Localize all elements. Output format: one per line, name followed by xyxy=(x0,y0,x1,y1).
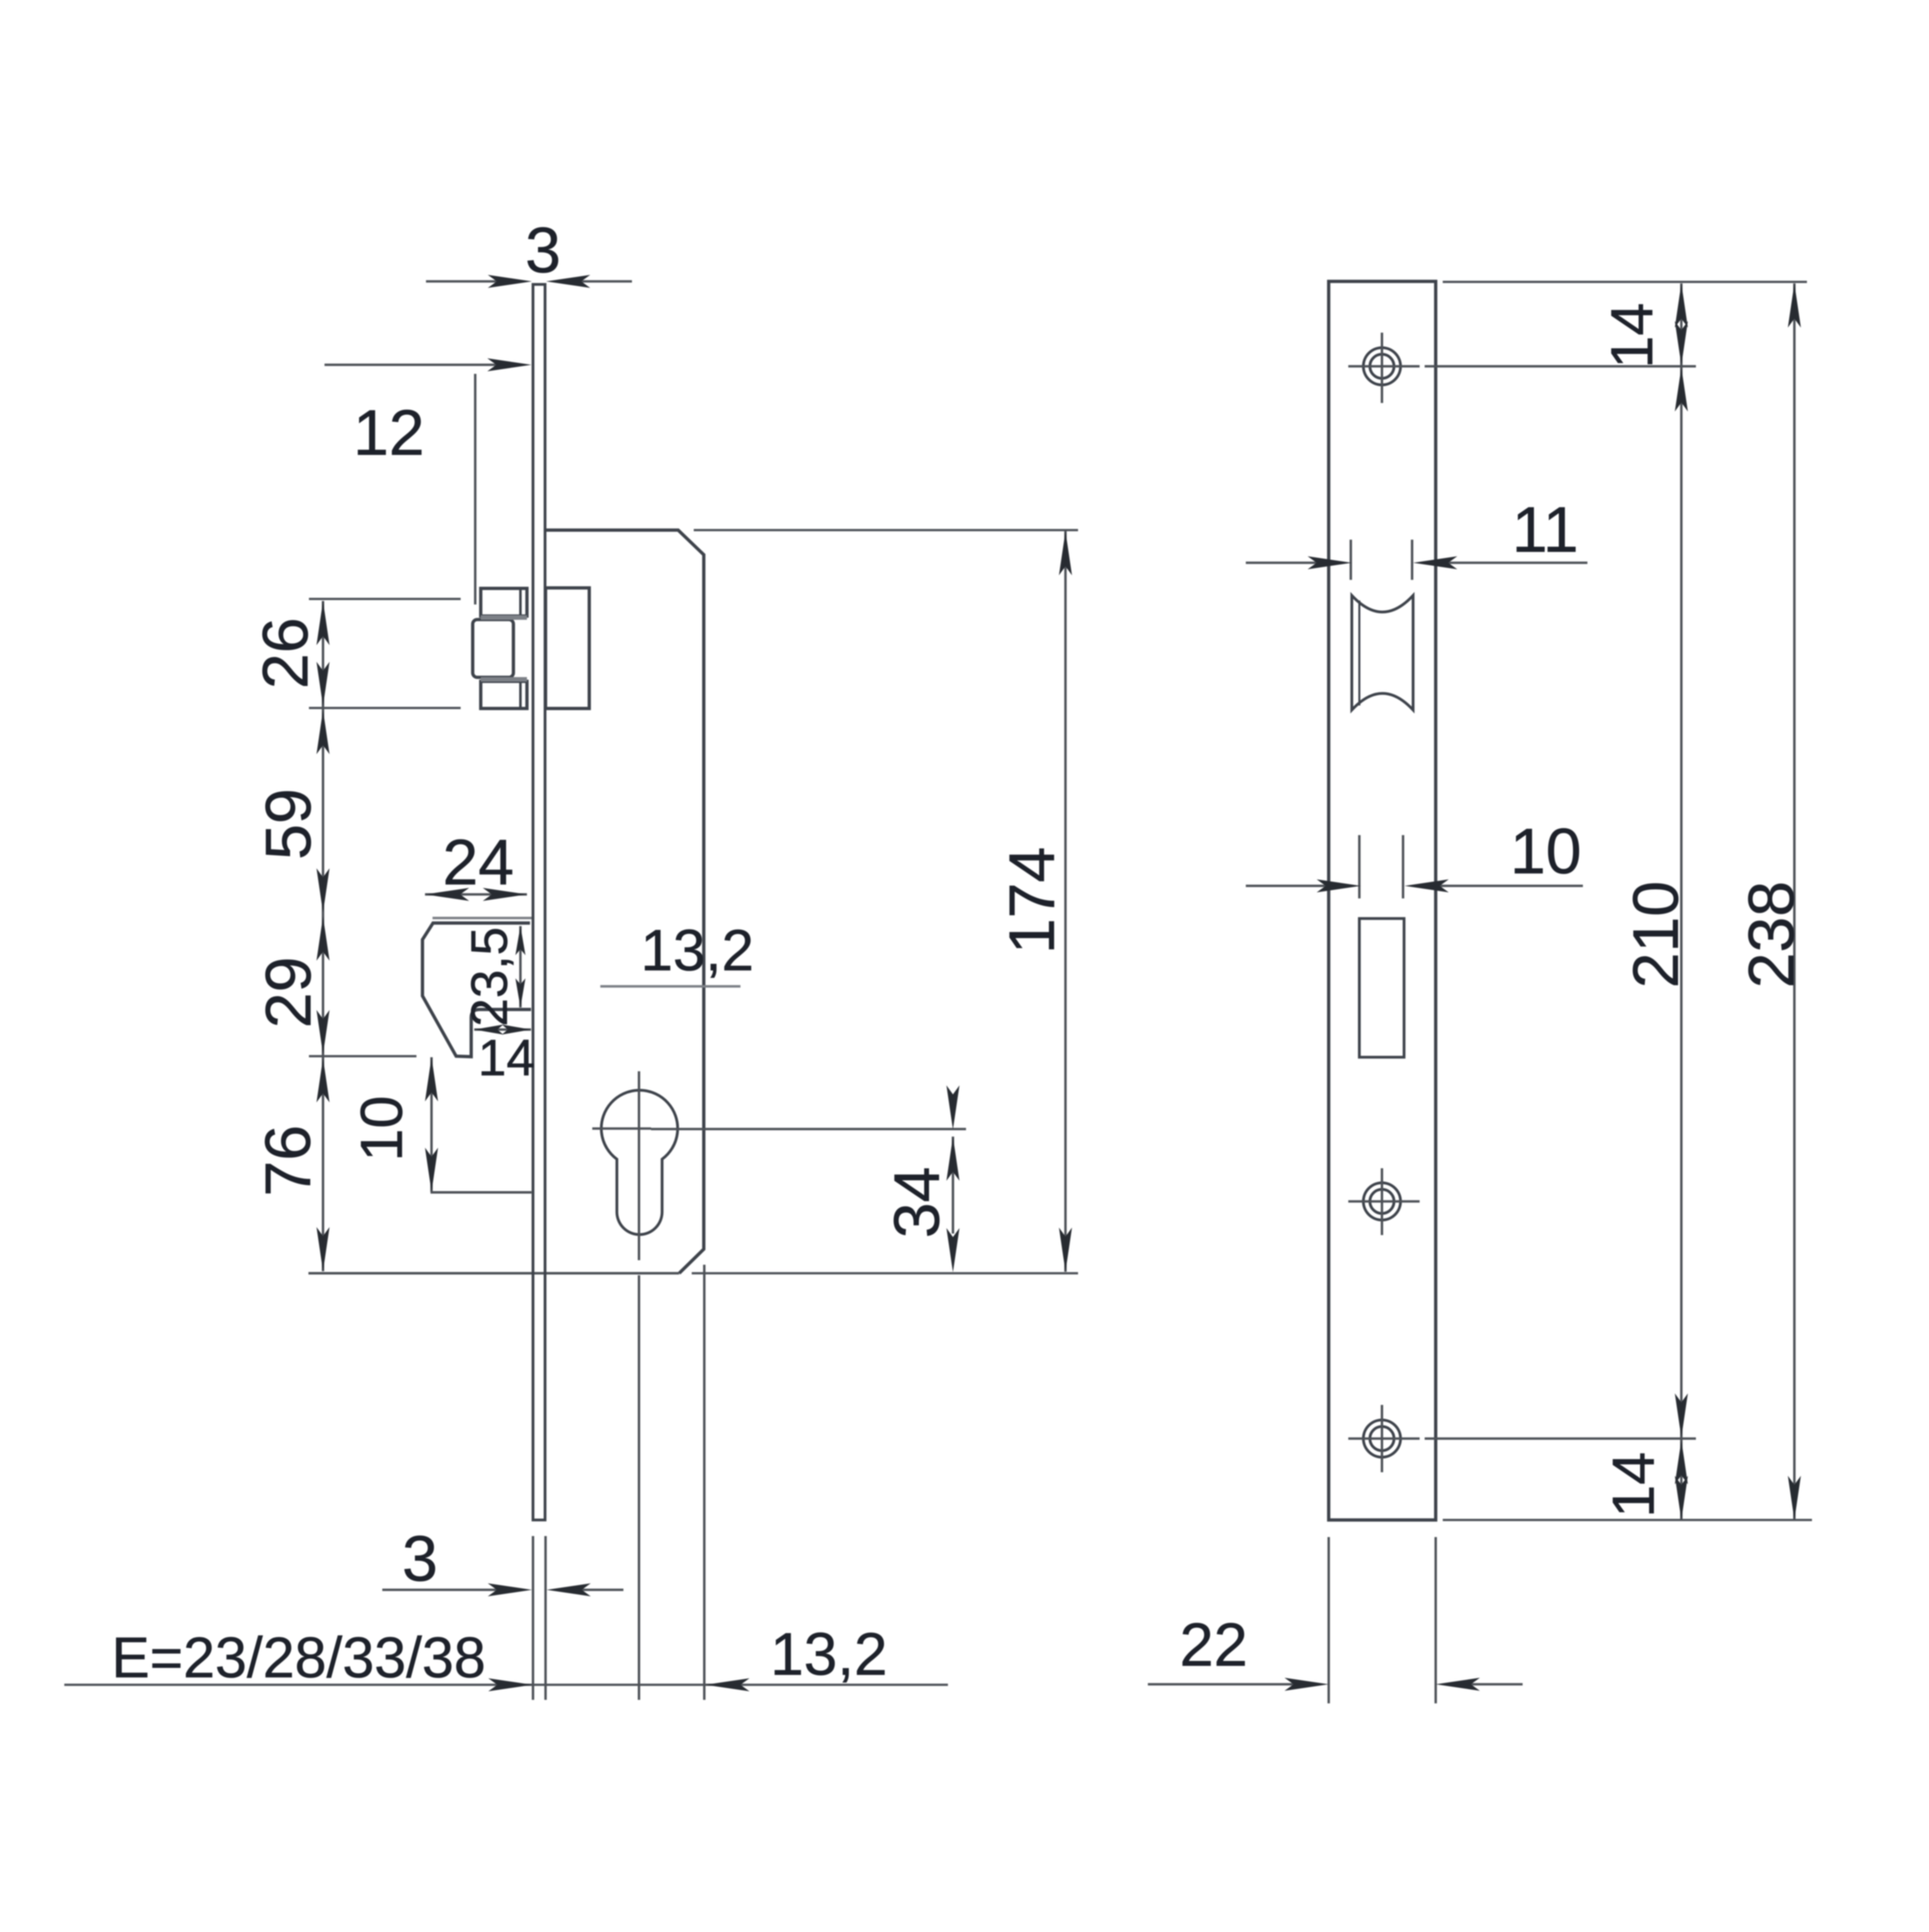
dim 23,5 line xyxy=(519,926,522,1007)
screw hole middle crosshair v xyxy=(1381,1168,1383,1235)
dim 3 top right segment xyxy=(573,280,632,283)
dim 210 arrows xyxy=(1675,367,1688,412)
dim 10 line right xyxy=(1432,885,1583,887)
dim 22 line left xyxy=(1148,1683,1294,1686)
svg-text:10: 10 xyxy=(1510,816,1581,887)
svg-text:12: 12 xyxy=(353,397,424,469)
latch bolt bevel edge lower xyxy=(519,681,522,708)
latch bolt front lower step xyxy=(481,681,527,708)
screw hole bottom inner xyxy=(1370,1427,1394,1451)
dim 3 bottom left segment xyxy=(382,1589,503,1591)
latch roller edge band upper xyxy=(481,616,527,620)
cylinder crosshair vertical xyxy=(638,1071,640,1260)
svg-text:210: 210 xyxy=(1620,881,1692,988)
faceplate (front view) xyxy=(1329,281,1436,1520)
dim 10 tick right xyxy=(1402,835,1405,898)
dim 11 tick left xyxy=(1350,540,1352,580)
euro cylinder keyhole xyxy=(601,1090,678,1235)
faceplate bottom extension line right xyxy=(545,1536,547,1700)
faceplate (edge view) xyxy=(533,284,545,1520)
svg-text:14: 14 xyxy=(1599,302,1665,368)
dim 12 extension line (latch tip) xyxy=(474,374,477,604)
dim 34 line xyxy=(952,1137,954,1234)
cylinder crosshair extension to dim 34 xyxy=(651,1128,966,1131)
screw hole top crosshair h xyxy=(1348,365,1420,368)
dim 3 bottom right segment xyxy=(582,1589,623,1591)
svg-text:26: 26 xyxy=(250,618,321,689)
dim 26-59-29-76 vertical line xyxy=(322,601,325,1271)
plate width extension right xyxy=(1435,1537,1437,1703)
dim 11 line right xyxy=(1440,562,1587,564)
dim 10 right arrows xyxy=(1317,879,1361,892)
dim 26 arrows xyxy=(316,601,330,645)
roller latch cutout inner edge xyxy=(1358,600,1360,705)
svg-text:76: 76 xyxy=(252,1125,324,1196)
latch bolt rear housing (behind faceplate) xyxy=(546,588,589,708)
hole1 center extension to dim 14 xyxy=(1425,365,1696,368)
dim 29 arrows xyxy=(316,917,330,961)
svg-text:14: 14 xyxy=(478,1029,534,1086)
latch bolt roller nose xyxy=(473,620,513,677)
dim 14 hook line xyxy=(474,1029,531,1031)
svg-text:174: 174 xyxy=(996,847,1068,954)
screw hole top crosshair v xyxy=(1381,333,1383,403)
body bottom extension to dim 174 xyxy=(692,1272,1078,1275)
roller latch cutout xyxy=(1352,595,1413,710)
svg-text:11: 11 xyxy=(1512,494,1579,566)
dim 12 arrow xyxy=(487,358,531,371)
dim 59 arrows xyxy=(316,710,330,754)
hole3 center extension to dim 14 xyxy=(1425,1438,1696,1440)
svg-text:E=23/28/33/38: E=23/28/33/38 xyxy=(112,1626,486,1690)
dim 174 arrows xyxy=(1059,531,1072,575)
svg-text:3: 3 xyxy=(402,1523,438,1595)
dim 26 top tick xyxy=(309,598,461,600)
dim 11 line left xyxy=(1246,562,1326,564)
body top extension line to dim 174 xyxy=(694,529,1078,532)
plate width extension left xyxy=(1328,1537,1330,1703)
lock body outline (side view) xyxy=(546,530,704,1273)
screw hole top outer xyxy=(1363,348,1401,385)
dim 3 bottom arrows xyxy=(488,1583,532,1596)
dim 23,5 arrows xyxy=(515,926,525,955)
dim 26 bottom tick xyxy=(309,707,461,709)
svg-text:22: 22 xyxy=(1180,1610,1248,1679)
svg-text:13,2: 13,2 xyxy=(640,918,754,983)
plate top extension line xyxy=(1443,281,1807,283)
deadbolt rectangular cutout xyxy=(1359,919,1404,1057)
dim 14 bottom arrows xyxy=(1675,1440,1688,1484)
hook deadbolt top face line xyxy=(433,917,532,920)
svg-text:13,2: 13,2 xyxy=(770,1620,888,1688)
screw hole middle outer xyxy=(1363,1183,1401,1220)
dim 14 top arrows xyxy=(1675,283,1688,328)
faceplate bottom extension line left xyxy=(532,1536,534,1700)
screw hole middle inner xyxy=(1370,1189,1394,1213)
screw hole middle crosshair h xyxy=(1348,1200,1420,1203)
cylinder centerline extension down xyxy=(638,1275,640,1700)
screw hole top inner xyxy=(1370,354,1394,378)
label 13,2 underline (cylinder offset) xyxy=(600,985,740,988)
dim 3 top arrows xyxy=(488,275,532,288)
dim 10 tick left xyxy=(1358,835,1361,898)
dim 34 arrows xyxy=(946,1085,959,1130)
dim 238 vertical line xyxy=(1793,283,1796,1520)
body bottom datum line xyxy=(308,1272,679,1275)
screw hole bottom crosshair v xyxy=(1381,1405,1383,1472)
svg-text:24: 24 xyxy=(443,827,514,898)
dim 14 hook arrows xyxy=(474,1025,503,1035)
lock case lower front line xyxy=(431,1191,531,1194)
dim 14 top / 210 / 14 bottom vertical line xyxy=(1680,283,1683,1520)
dim 29 bottom tick xyxy=(309,1055,416,1058)
latch roller edge band lower xyxy=(481,677,527,682)
dim 10 arrows xyxy=(425,1057,438,1101)
dim 13,2 bottom arrow xyxy=(705,1678,749,1691)
dim 22 line right xyxy=(1471,1683,1523,1686)
dim 3 top left segment xyxy=(426,280,505,283)
svg-text:23,5: 23,5 xyxy=(461,927,518,1027)
body right edge extension down xyxy=(703,1265,706,1700)
dim 238 arrows xyxy=(1788,283,1801,328)
dim 22 arrows xyxy=(1284,1678,1329,1691)
svg-text:34: 34 xyxy=(881,1167,953,1238)
svg-text:29: 29 xyxy=(253,957,325,1028)
dim 10 line xyxy=(431,1057,433,1192)
screw hole bottom crosshair h xyxy=(1348,1438,1420,1440)
dim E baseline xyxy=(64,1684,948,1686)
hook deadbolt outline xyxy=(422,923,531,1057)
dim 24 line xyxy=(425,893,527,896)
dim 76 arrows xyxy=(316,1058,330,1102)
screw hole bottom outer xyxy=(1363,1420,1401,1457)
dim 11 arrows xyxy=(1308,556,1352,569)
svg-text:59: 59 xyxy=(253,788,325,860)
dim 174 line xyxy=(1064,531,1067,1272)
latch bolt front upper step xyxy=(481,588,527,616)
dim 11 tick right xyxy=(1411,540,1414,580)
dim 24 arrows xyxy=(425,888,469,901)
svg-text:238: 238 xyxy=(1736,881,1807,988)
plate bottom extension line xyxy=(1443,1519,1812,1521)
cylinder crosshair horizontal xyxy=(592,1128,651,1130)
latch bolt bevel edge upper xyxy=(519,588,522,616)
svg-text:10: 10 xyxy=(349,1095,415,1161)
svg-text:3: 3 xyxy=(525,215,561,286)
dim E baseline arrow xyxy=(488,1678,532,1691)
dim 12 line xyxy=(325,364,522,366)
svg-text:14: 14 xyxy=(1600,1452,1667,1517)
dim 10 line left xyxy=(1246,885,1334,887)
